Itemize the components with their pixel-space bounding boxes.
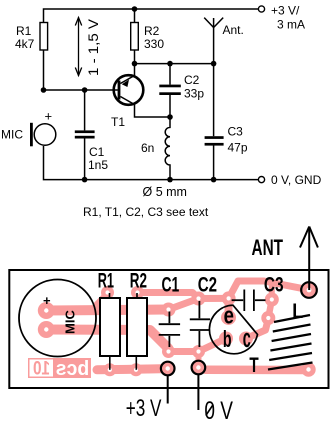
- trace C2bot to b pad: [199, 339, 227, 352]
- svg-text:C2: C2: [198, 272, 217, 296]
- svg-text:+: +: [43, 293, 51, 308]
- pad C1 bottom: [162, 345, 175, 358]
- svg-text:R2: R2: [144, 24, 160, 38]
- trace C1top to C2top: [169, 299, 199, 310]
- svg-text:C3: C3: [228, 125, 244, 139]
- trace e pad down link: [225, 299, 233, 318]
- node collector-ant: [211, 61, 217, 67]
- wire C2 branch: [169, 64, 171, 85]
- trace R1top stub: [96, 294, 108, 307]
- wire C1 branch bottom: [84, 139, 86, 180]
- svg-text:1n5: 1n5: [88, 158, 108, 172]
- pad C2 bottom: [192, 345, 205, 358]
- svg-text:C2: C2: [184, 73, 200, 87]
- svg-text:R1, T1, C2, C3 see text: R1, T1, C2, C3 see text: [83, 205, 209, 219]
- svg-text:C1: C1: [89, 145, 105, 159]
- svg-text:b: b: [223, 326, 232, 352]
- node collector-R2: [132, 61, 138, 67]
- svg-text:330: 330: [144, 37, 164, 51]
- antenna symbol: [204, 18, 223, 28]
- trace 0V pad up link: [196, 351, 202, 368]
- board outline: [9, 270, 328, 388]
- wire collector lead: [134, 64, 136, 76]
- wire C3 bottom lead: [213, 146, 215, 180]
- trace R2top to C2top: [138, 293, 199, 299]
- wire 0V lead: [197, 375, 199, 411]
- trace MIC2 gnd: [46, 330, 169, 349]
- svg-text:C3: C3: [264, 273, 284, 297]
- pad 0V: [192, 361, 206, 375]
- wire emitter rail: [135, 105, 171, 118]
- transistor T1: [114, 75, 144, 105]
- pad transistor c: [239, 332, 253, 346]
- svg-text:C1: C1: [162, 272, 180, 296]
- inductor 6n coil: [165, 117, 170, 180]
- pad ANT: [301, 282, 317, 298]
- node A (rail/R1): [132, 6, 138, 12]
- pad MIC1: [38, 302, 55, 319]
- svg-text:R1: R1: [16, 24, 32, 38]
- svg-text:R2: R2: [130, 269, 147, 293]
- pad R2 top: [131, 286, 144, 299]
- wire R2 top lead: [134, 9, 136, 23]
- svg-text:33p: 33p: [184, 87, 204, 101]
- svg-text:Ø 5 mm: Ø 5 mm: [143, 185, 187, 199]
- svg-text:ANT: ANT: [252, 235, 284, 260]
- wire collector rail: [135, 63, 214, 65]
- svg-text:6n: 6n: [141, 141, 154, 155]
- wire R2 bottom lead: [134, 50, 136, 64]
- capacitor C2: [159, 85, 181, 95]
- inductor L hatch PCB: [268, 315, 313, 370]
- capacitor C3: [205, 136, 224, 145]
- resistor R1 body PCB: [100, 293, 120, 370]
- svg-text:Ant.: Ant.: [223, 23, 244, 37]
- pad transistor b: [219, 332, 233, 346]
- node gnd-C1: [82, 177, 88, 183]
- svg-text:10: 10: [33, 359, 50, 380]
- ANT wire arrow: [300, 227, 318, 291]
- svg-text:3 mA: 3 mA: [277, 18, 305, 32]
- terminal +3V open circle: [258, 6, 264, 12]
- logo bcs10 stamp: [28, 358, 91, 380]
- pad C2 top: [192, 292, 206, 306]
- svg-text:MIC: MIC: [63, 310, 78, 334]
- svg-text:c: c: [243, 325, 251, 353]
- svg-text:MIC: MIC: [1, 128, 23, 142]
- svg-text:1 - 1,5 V: 1 - 1,5 V: [85, 18, 101, 76]
- svg-text:T1: T1: [111, 115, 125, 129]
- resistor R2 body PCB: [127, 293, 147, 370]
- wire top +3V rail: [44, 9, 259, 90]
- wire C2 to emitter rail: [169, 95, 171, 117]
- wire ground rail: [44, 146, 259, 180]
- capacitor C1: [75, 130, 95, 138]
- trace bottom band left: [97, 369, 161, 370]
- svg-text:T: T: [249, 353, 258, 377]
- svg-text:+3 V: +3 V: [126, 395, 162, 422]
- trace MIC1 to C1top: [46, 310, 168, 311]
- pad R1 top: [101, 286, 114, 299]
- svg-text:0 V, GND: 0 V, GND: [271, 173, 322, 187]
- trace e pad to ANT pad: [229, 281, 309, 298]
- pad transistor e top: [222, 291, 236, 305]
- node base-left: [41, 87, 47, 93]
- microphone MIC: [30, 123, 56, 147]
- trace C1bot to C2bot: [169, 348, 199, 355]
- svg-text:+: +: [45, 109, 53, 124]
- pad C1 top: [162, 303, 176, 317]
- svg-text:47p: 47p: [228, 141, 248, 155]
- node gnd-coil: [167, 177, 173, 183]
- node emitter-coil: [167, 114, 173, 120]
- pad L top: [261, 311, 275, 325]
- wire C1 branch top: [84, 90, 86, 130]
- pad C3 right: [265, 293, 279, 307]
- resistor R1: [40, 23, 48, 51]
- transistor T outline PCB: [209, 305, 257, 354]
- pad MIC2: [38, 321, 55, 338]
- capacitor C1 symbol PCB: [159, 312, 180, 348]
- trace C3 pad up link: [269, 284, 275, 300]
- svg-text:bcs: bcs: [56, 358, 90, 380]
- svg-text:L: L: [292, 299, 303, 323]
- slash of 0: [206, 405, 213, 416]
- wire antenna / C3 vertical: [213, 28, 215, 137]
- wire base rail: [44, 89, 118, 91]
- node collector-C2: [167, 61, 173, 67]
- node gnd-C3: [211, 177, 217, 183]
- terminal 0V open circle: [258, 177, 264, 183]
- pad transistor e: [221, 310, 236, 325]
- svg-text:R1: R1: [98, 269, 114, 293]
- trace c pad to L top: [246, 319, 268, 339]
- node base-C1: [82, 87, 88, 93]
- trace C3 pad to L top: [268, 300, 272, 319]
- pad +3V: [161, 362, 175, 376]
- capacitor C3 symbol PCB: [232, 290, 266, 312]
- pad R1 bottom: [103, 363, 116, 376]
- capacitor C2 symbol PCB: [190, 301, 210, 347]
- MIC outline circle: [19, 280, 96, 357]
- trace bottom band right: [205, 366, 309, 375]
- svg-text:4k7: 4k7: [15, 37, 35, 51]
- pad R2 bottom: [130, 363, 143, 376]
- svg-text:+3 V/: +3 V/: [271, 4, 300, 18]
- resistor R2: [131, 23, 139, 51]
- annotation voltage arrow: [75, 18, 81, 76]
- trace C2top to e pad: [199, 295, 229, 302]
- pad L bottom: [301, 362, 315, 376]
- wire +3V lead: [167, 376, 169, 404]
